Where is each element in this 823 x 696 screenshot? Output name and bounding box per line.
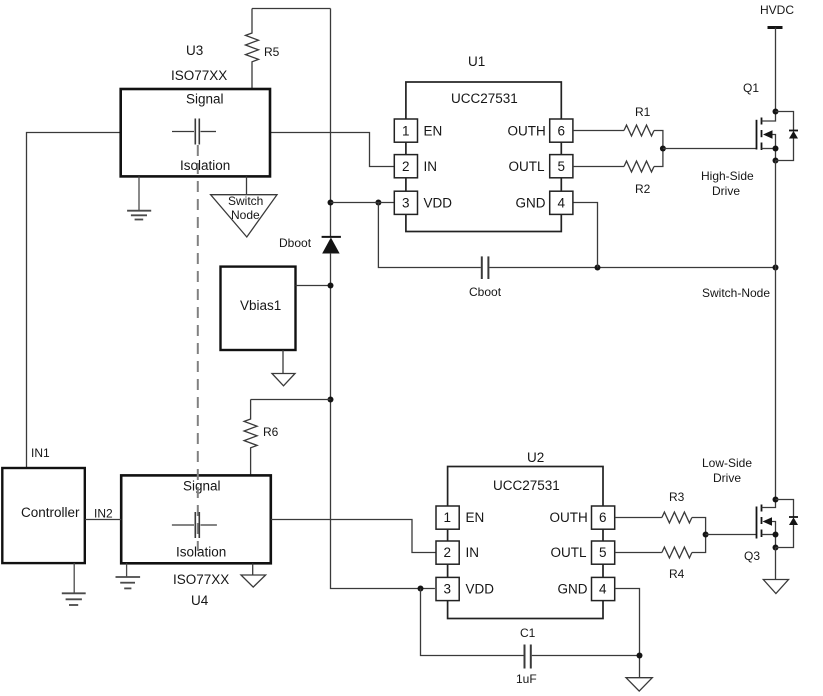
transistor Q1: [743, 81, 779, 164]
svg-text:IN: IN: [424, 159, 438, 174]
svg-text:1: 1: [444, 510, 452, 525]
svg-text:ISO77XX: ISO77XX: [171, 68, 227, 83]
resistor R6: [244, 400, 279, 476]
svg-text:R5: R5: [264, 45, 280, 59]
svg-text:Q3: Q3: [744, 549, 760, 563]
ground under U4: [116, 563, 141, 588]
node Switch Node triangle under U3: [211, 176, 277, 237]
svg-text:6: 6: [599, 510, 607, 525]
svg-text:IN1: IN1: [31, 446, 50, 460]
svg-text:Isolation: Isolation: [180, 158, 230, 173]
label High-Side Drive: [701, 169, 754, 198]
svg-text:Signal: Signal: [186, 92, 224, 107]
IC U1 UCC27531: [406, 54, 561, 232]
wire R4 to junction: [692, 535, 706, 553]
svg-text:GND: GND: [516, 196, 546, 211]
wire U2 OUTH to R3: [615, 517, 662, 519]
ground under C1: [626, 678, 652, 691]
svg-text:5: 5: [558, 159, 566, 174]
svg-text:4: 4: [599, 582, 607, 597]
wire C1 right to junction: [532, 655, 640, 657]
svg-text:3: 3: [402, 196, 410, 211]
svg-text:U1: U1: [468, 54, 485, 69]
pin 1 U2: [436, 506, 484, 529]
svg-text:Signal: Signal: [183, 479, 221, 494]
svg-text:Switch: Switch: [228, 194, 263, 208]
wire Q1 source down to Q3 drain: [775, 161, 777, 500]
ground under Controller: [62, 563, 86, 605]
node IN1: [31, 446, 50, 460]
svg-text:2: 2: [444, 545, 452, 560]
wire dashed isolation boundary: [197, 145, 199, 551]
svg-text:IN2: IN2: [94, 507, 113, 521]
svg-text:UCC27531: UCC27531: [451, 91, 518, 106]
capacitor isolation barrier U3: [172, 119, 216, 145]
svg-text:6: 6: [558, 123, 566, 138]
svg-text:OUTH: OUTH: [550, 510, 588, 525]
svg-text:U2: U2: [527, 450, 544, 465]
svg-text:U4: U4: [191, 593, 209, 608]
node Switch-Node: [702, 265, 779, 301]
wire U2 OUTL to R4: [615, 552, 662, 554]
svg-text:Node: Node: [231, 208, 260, 222]
svg-text:1: 1: [402, 123, 410, 138]
wire Vbias1 to rail: [296, 283, 334, 289]
wire rail to U1 pin3: [331, 202, 395, 204]
pin 6 U2: [550, 506, 615, 529]
svg-text:OUTL: OUTL: [509, 159, 545, 174]
IC U4 ISO77XX: [121, 475, 271, 608]
svg-text:Cboot: Cboot: [469, 285, 502, 299]
node U1 VDD junction: [328, 200, 382, 206]
wire U3 output to U1 IN: [270, 133, 394, 167]
resistor R1: [624, 105, 654, 136]
IC U3 ISO77XX: [121, 43, 270, 176]
svg-text:Low-Side: Low-Side: [702, 456, 752, 470]
wire HVDC to Q1 drain: [775, 28, 777, 112]
svg-text:R6: R6: [263, 425, 279, 439]
svg-text:5: 5: [599, 545, 607, 560]
resistor R4: [662, 547, 692, 581]
svg-text:R1: R1: [635, 105, 651, 119]
ground under Q3: [763, 580, 788, 594]
wire U2 VDD down to C1: [421, 589, 524, 656]
IC U2 UCC27531: [448, 450, 603, 619]
node R6 rail junction: [328, 397, 334, 403]
svg-text:4: 4: [558, 196, 566, 211]
svg-text:High-Side: High-Side: [701, 169, 754, 183]
pin 2 U2: [436, 541, 479, 564]
svg-text:Isolation: Isolation: [176, 545, 226, 560]
pin 2 U1: [394, 155, 437, 178]
pin 5 U1: [509, 155, 573, 178]
svg-text:Q1: Q1: [743, 81, 759, 95]
wire U1 GND pin4 down: [573, 203, 598, 268]
wire Cboot left branch: [378, 203, 480, 268]
wire VDD rail lower (Dboot to U2 VDD): [331, 253, 435, 589]
svg-text:EN: EN: [424, 123, 443, 138]
svg-text:R2: R2: [635, 182, 651, 196]
ground triangle under U4: [241, 563, 266, 587]
svg-text:VDD: VDD: [466, 582, 495, 597]
resistor R2: [624, 161, 654, 196]
svg-text:Controller: Controller: [21, 505, 80, 520]
pin 4 U2: [558, 577, 615, 600]
svg-text:OUTH: OUTH: [508, 123, 546, 138]
block Controller: [2, 468, 85, 563]
svg-text:IN: IN: [466, 545, 480, 560]
diode Dboot: [279, 236, 341, 253]
svg-text:C1: C1: [520, 626, 536, 640]
svg-text:3: 3: [444, 582, 452, 597]
svg-text:Vbias1: Vbias1: [240, 298, 281, 313]
wire junction to Q1 gate: [663, 148, 757, 150]
wire U2 GND pin4 down: [615, 589, 640, 678]
svg-text:U3: U3: [186, 43, 203, 58]
wire U4 output to U2 IN: [271, 520, 437, 553]
transistor Q3: [744, 497, 779, 564]
pin 3 U2: [436, 577, 494, 600]
pin 3 U1: [394, 191, 452, 214]
block Vbias1: [221, 267, 296, 350]
svg-text:ISO77XX: ISO77XX: [173, 572, 229, 587]
wire top R5 to rail: [252, 8, 331, 10]
capacitor Cboot: [469, 256, 502, 299]
node U2 VDD junction: [418, 586, 424, 592]
wire U1 OUTL to R2: [573, 166, 624, 168]
svg-text:UCC27531: UCC27531: [493, 478, 560, 493]
svg-text:R3: R3: [669, 490, 685, 504]
node R3R4 junction: [703, 532, 709, 538]
capacitor isolation barrier U4: [172, 512, 217, 538]
diode Q1 body: [776, 112, 799, 161]
capacitor C1: [516, 626, 537, 686]
pin 6 U1: [508, 119, 573, 142]
svg-text:EN: EN: [466, 510, 485, 525]
svg-text:Drive: Drive: [712, 184, 740, 198]
resistor R3: [662, 490, 692, 523]
wire IN2: [85, 507, 121, 521]
svg-text:R4: R4: [669, 567, 685, 581]
pin 5 U2: [551, 541, 615, 564]
svg-text:1uF: 1uF: [516, 672, 537, 686]
svg-text:Drive: Drive: [713, 471, 741, 485]
svg-text:2: 2: [402, 159, 410, 174]
resistor R5: [246, 9, 280, 90]
wire R2 to junction: [654, 149, 663, 167]
node HVDC: [760, 3, 794, 28]
wire rail to R6: [251, 399, 331, 401]
node Cboot-GND junction: [595, 265, 601, 271]
wire junction to Q3 gate: [706, 534, 757, 536]
node C1 GND junction: [637, 653, 643, 659]
pin 4 U1: [516, 191, 573, 214]
wire Q3 source to ground: [775, 548, 777, 580]
svg-text:Dboot: Dboot: [279, 236, 312, 250]
wire Cboot to switch node: [489, 267, 775, 269]
diode Q3 body: [776, 500, 799, 548]
ground under U3: [127, 176, 151, 219]
wire IN1 from U3 to controller: [27, 133, 121, 469]
svg-text:HVDC: HVDC: [760, 3, 794, 17]
svg-text:OUTL: OUTL: [551, 545, 587, 560]
wire U1 OUTH to R1: [573, 130, 624, 132]
svg-text:GND: GND: [558, 582, 588, 597]
wire R1 to junction: [654, 131, 663, 149]
svg-text:VDD: VDD: [424, 196, 453, 211]
svg-text:Switch-Node: Switch-Node: [702, 286, 770, 300]
wire VDD rail top (x=330.5 from top to Dboot): [330, 9, 332, 237]
wire R3 to junction: [692, 518, 706, 535]
pin 1 U1: [394, 119, 442, 142]
ground under Vbias1: [272, 350, 295, 386]
node R1R2 junction: [660, 146, 666, 152]
label Low-Side Drive: [702, 456, 752, 485]
